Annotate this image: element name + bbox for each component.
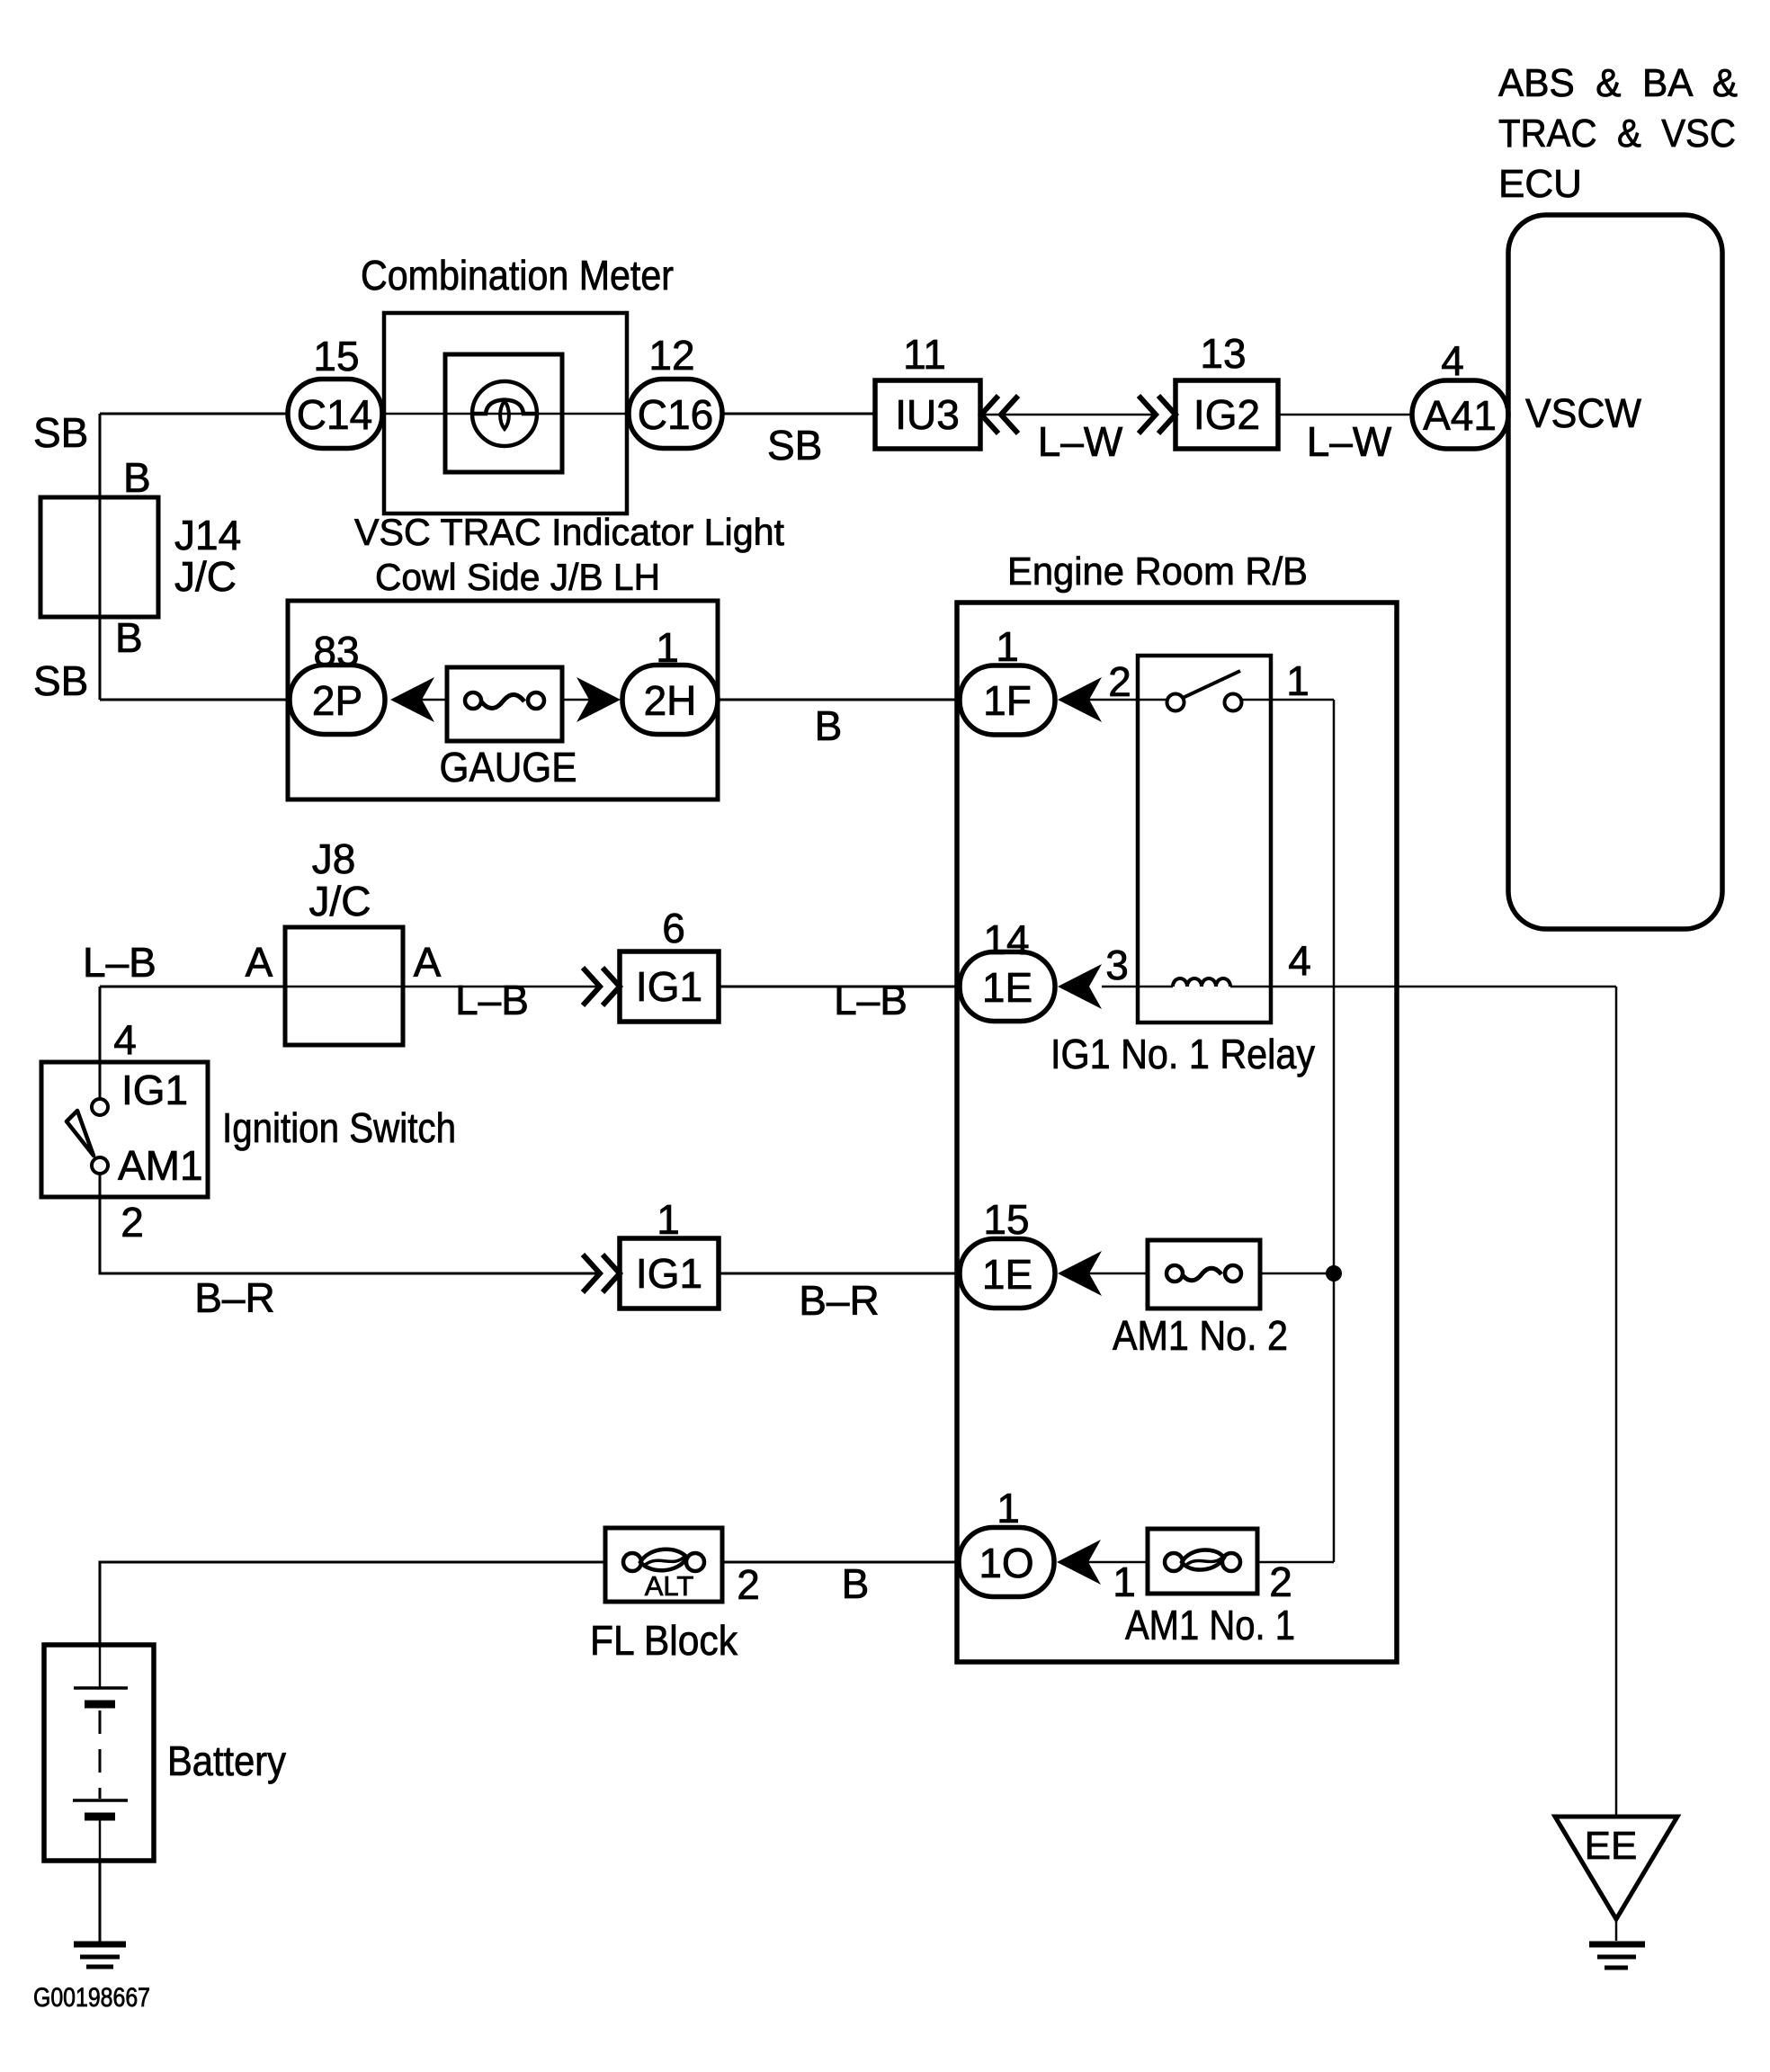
- pin 1 label (AM1 No.1 left): [1113, 1558, 1136, 1605]
- connector 1F: [960, 665, 1055, 735]
- node label: FL Block: [590, 1617, 738, 1664]
- wire row3: left bus to J8: [100, 986, 285, 988]
- svg-text:VSC TRAC Indicator Light: VSC TRAC Indicator Light: [354, 511, 784, 553]
- label J14 J/C: [174, 512, 241, 600]
- label GAUGE: [440, 744, 577, 790]
- fuse GAUGE symbol: [465, 692, 544, 709]
- wire fuse to arrow: [562, 699, 589, 701]
- figure id G00198667: [33, 1983, 150, 2013]
- svg-text:B–R: B–R: [194, 1274, 274, 1321]
- engine room R/B box: [957, 603, 1397, 1662]
- svg-text:GAUGE: GAUGE: [440, 744, 577, 790]
- pin 15 label: [313, 333, 359, 380]
- pin 6 label: [662, 905, 685, 951]
- ground (EE): [1589, 1944, 1645, 1968]
- pin 1 label (IG1 row4): [657, 1196, 680, 1243]
- pin A label (left of J8): [246, 939, 273, 986]
- node label: Battery: [167, 1737, 286, 1784]
- svg-text:ALT: ALT: [645, 1570, 694, 1602]
- svg-text:2: 2: [121, 1199, 144, 1246]
- wire arrow to relay switch: [1089, 699, 1167, 701]
- wire C14 to meter inner area to C16: [382, 413, 630, 415]
- svg-text:IG2: IG2: [1193, 391, 1260, 438]
- node label: ABS & BA & TRAC & VSC ECU: [1498, 61, 1738, 206]
- svg-text:15: 15: [313, 333, 359, 380]
- svg-text:B–R: B–R: [799, 1277, 879, 1324]
- wire AM1 down and row4 to chevrons: [100, 1174, 600, 1273]
- connector C14: [288, 380, 382, 449]
- svg-text:IG1: IG1: [636, 963, 702, 1010]
- wire EE apex to ground: [1615, 1919, 1618, 1941]
- wire left bus vertical (row1 to row2): [99, 414, 102, 700]
- pin 13 label: [1200, 330, 1246, 377]
- IG1 No.1 relay box: [1138, 656, 1271, 1023]
- ground EE triangle: [1555, 1817, 1677, 1919]
- relay pin 4 label: [1288, 937, 1311, 984]
- svg-text:4: 4: [1441, 337, 1464, 384]
- node label: IG1 No. 1 Relay: [1050, 1031, 1315, 1077]
- svg-text:L–B: L–B: [834, 977, 907, 1023]
- arrow (coil to 1E): [1058, 964, 1102, 1009]
- svg-text:EE: EE: [1585, 1824, 1638, 1868]
- wire label L-B (far left): [83, 939, 156, 986]
- wire left bus vertical row3 to IG1 terminal: [99, 987, 102, 1099]
- AM1 No.1 fusible link symbol: [1165, 1550, 1240, 1571]
- svg-text:4: 4: [1288, 937, 1311, 984]
- wire battery to FL block: [100, 1562, 605, 1645]
- connector A41: [1412, 380, 1508, 449]
- pin 83 label: [313, 628, 359, 674]
- wire label B (below J14): [115, 614, 143, 661]
- svg-text:2: 2: [1108, 658, 1131, 705]
- svg-text:ECU: ECU: [1498, 162, 1582, 206]
- pin 2 label (AM1 No.1 right): [1269, 1558, 1292, 1605]
- svg-text:J/C: J/C: [174, 553, 237, 600]
- junction connector J14 box: [40, 497, 158, 617]
- battery box: [44, 1645, 154, 1861]
- label AM1 (ignition): [118, 1142, 203, 1189]
- wire label SB (right of C16): [767, 422, 822, 469]
- connector 1O: [959, 1528, 1054, 1597]
- wire label B (above J14): [123, 454, 151, 501]
- connector 1E pin14: [960, 952, 1055, 1022]
- label VSCW: [1525, 390, 1642, 436]
- node label: Engine Room R/B: [1007, 549, 1308, 594]
- wire arrow to AM1 No.2 fuse: [1089, 1273, 1148, 1275]
- svg-text:1F: 1F: [983, 677, 1032, 724]
- relay switch contacts: [1167, 671, 1242, 711]
- ignition IG1 terminal: [92, 1099, 108, 1115]
- wire IG2 to A41 (L-W): [1278, 414, 1413, 416]
- connector IU3: [875, 380, 980, 449]
- wire label SB (row2 left): [33, 657, 88, 704]
- wire row3 from relay to EE drop: [1334, 986, 1616, 988]
- ignition AM1 terminal: [92, 1157, 108, 1174]
- ground (battery): [74, 1944, 126, 1967]
- pin 14 label: [983, 916, 1029, 963]
- battery internal bottom wire: [99, 1817, 102, 1861]
- male chevrons before IG1: [583, 968, 620, 1005]
- svg-text:J/C: J/C: [309, 878, 371, 924]
- wire row3 through J8 to chevrons: [285, 986, 600, 988]
- svg-text:4: 4: [113, 1016, 137, 1063]
- svg-text:IG1: IG1: [636, 1250, 702, 1297]
- battery plate long bottom: [73, 1799, 128, 1802]
- svg-text:1: 1: [657, 1196, 680, 1243]
- wire IG1 to 1E (B-R): [719, 1273, 961, 1275]
- wire C16 to IU3: [721, 413, 875, 415]
- wire SB from left bus to C14: [100, 413, 288, 415]
- svg-text:J8: J8: [312, 835, 356, 882]
- wire battery to ground: [99, 1861, 102, 1943]
- svg-text:2: 2: [737, 1561, 760, 1608]
- svg-text:A: A: [414, 939, 442, 986]
- battery dashed center: [99, 1710, 102, 1799]
- male chevrons before IG2: [1139, 396, 1176, 433]
- pin 12 label: [648, 332, 694, 379]
- svg-text:C14: C14: [297, 391, 372, 438]
- connector 2P: [290, 665, 385, 735]
- svg-text:1: 1: [1113, 1558, 1136, 1605]
- wire vertical from relay pin1 down to AM1 fuses: [1333, 700, 1336, 1562]
- svg-text:2: 2: [1269, 1558, 1292, 1605]
- svg-text:L–W: L–W: [1307, 418, 1392, 465]
- wire FL to 1O (B): [722, 1561, 961, 1564]
- svg-text:L–B: L–B: [455, 977, 529, 1023]
- svg-text:SB: SB: [33, 409, 88, 456]
- svg-text:B: B: [115, 614, 143, 661]
- connector 1E pin15: [960, 1239, 1055, 1308]
- male chevrons after IU3: [981, 396, 1018, 433]
- pin A label (right of J8): [414, 939, 442, 986]
- wire 2H to 1F (B): [718, 699, 961, 701]
- wire label L-W (IU3 to IG2): [1038, 418, 1123, 465]
- svg-text:Battery: Battery: [167, 1737, 286, 1784]
- pin 1 label (1F): [996, 623, 1019, 670]
- label: VSC TRAC Indicator Light: [354, 511, 784, 553]
- svg-text:IG1 No. 1 Relay: IG1 No. 1 Relay: [1050, 1031, 1315, 1077]
- fusible link AM1 No.1 box: [1148, 1529, 1257, 1594]
- svg-text:Engine Room R/B: Engine Room R/B: [1007, 549, 1308, 594]
- wire label B (row5): [842, 1560, 870, 1607]
- wire IG1 to 1E (L-B): [719, 986, 961, 988]
- pin 11 label: [903, 331, 946, 378]
- arrow (AM1 No.2 fuse to 1E): [1058, 1251, 1102, 1296]
- svg-text:1E: 1E: [982, 1251, 1032, 1298]
- svg-text:SB: SB: [767, 422, 822, 469]
- pin 4 label: [1441, 337, 1464, 384]
- svg-text:1: 1: [997, 1485, 1020, 1532]
- combination meter box: [384, 313, 627, 514]
- wire label L-B (mid): [455, 977, 529, 1023]
- svg-text:ABS & BA &: ABS & BA &: [1498, 61, 1738, 105]
- svg-text:A41: A41: [1423, 392, 1497, 439]
- pin 1 label (1O): [997, 1485, 1020, 1532]
- junction dot: [1326, 1265, 1342, 1282]
- svg-text:15: 15: [983, 1196, 1029, 1243]
- relay pin 2 label: [1108, 658, 1131, 705]
- label ALT: [645, 1570, 694, 1602]
- ignition switch box: [41, 1062, 208, 1197]
- pin 15 label: [983, 1196, 1029, 1243]
- svg-text:IU3: IU3: [895, 391, 960, 438]
- svg-text:IG1: IG1: [121, 1067, 188, 1113]
- battery plate short thick bottom: [85, 1813, 115, 1821]
- svg-text:Cowl Side J/B LH: Cowl Side J/B LH: [375, 556, 660, 598]
- relay pin 3 label: [1105, 942, 1129, 988]
- svg-text:SB: SB: [33, 657, 88, 704]
- wire label B-R (left): [194, 1274, 274, 1321]
- pin 2 label (FL): [737, 1561, 760, 1608]
- svg-text:14: 14: [983, 916, 1029, 963]
- svg-text:3: 3: [1105, 942, 1129, 988]
- connector C16: [629, 380, 722, 449]
- svg-text:J14: J14: [174, 512, 241, 558]
- node label: AM1 No. 2: [1113, 1312, 1288, 1359]
- wire label SB (left of C14 wire): [33, 409, 88, 456]
- svg-text:Combination Meter: Combination Meter: [361, 252, 674, 299]
- ABS & BA & TRAC & VSC ECU box: [1508, 215, 1722, 929]
- svg-text:B: B: [123, 454, 151, 501]
- label IG1 (ignition): [121, 1067, 188, 1113]
- connector IG2: [1176, 380, 1278, 449]
- wire row2 left bus to 2P: [100, 699, 290, 701]
- male chevrons before IG1 row4: [583, 1255, 620, 1292]
- wire vertical drop to EE ground: [1615, 987, 1618, 1817]
- node label: AM1 No. 1: [1125, 1602, 1295, 1648]
- svg-text:G00198667: G00198667: [33, 1983, 150, 2013]
- svg-text:12: 12: [648, 332, 694, 379]
- svg-text:VSCW: VSCW: [1525, 390, 1642, 436]
- svg-text:A: A: [246, 939, 273, 986]
- cowl side J/B box: [288, 601, 718, 799]
- ignition switch lever: [67, 1111, 94, 1156]
- svg-text:13: 13: [1200, 330, 1246, 377]
- svg-text:1: 1: [1286, 657, 1310, 704]
- wire arrow to fuse: [416, 699, 447, 701]
- svg-text:AM1 No. 1: AM1 No. 1: [1125, 1602, 1295, 1648]
- svg-text:83: 83: [313, 628, 359, 674]
- svg-text:L–B: L–B: [83, 939, 156, 986]
- wire label L-B (right): [834, 977, 907, 1023]
- battery plate long top: [74, 1686, 128, 1690]
- svg-text:B: B: [842, 1560, 870, 1607]
- pin 2 label (ignition): [121, 1199, 144, 1246]
- svg-text:2H: 2H: [644, 677, 697, 724]
- arrow (relay to 1F): [1058, 677, 1102, 722]
- wire IU3 to IG2 (L-W): [983, 414, 1156, 416]
- wire relay pin1: [1241, 699, 1334, 701]
- battery internal top wire: [99, 1645, 102, 1688]
- svg-text:B: B: [815, 702, 843, 749]
- svg-text:L–W: L–W: [1038, 418, 1123, 465]
- relay coil: [1102, 978, 1334, 987]
- arrow (fuse to 2H): [577, 677, 621, 722]
- svg-text:FL Block: FL Block: [590, 1617, 738, 1664]
- svg-text:6: 6: [662, 905, 685, 951]
- svg-text:AM1: AM1: [118, 1142, 203, 1189]
- node label: Combination Meter: [361, 252, 674, 299]
- battery plate short thick top: [85, 1701, 115, 1709]
- relay pin 1 label: [1286, 657, 1310, 704]
- wire label B: [815, 702, 843, 749]
- wire arrow to AM1 No.1: [1088, 1561, 1148, 1564]
- svg-text:1E: 1E: [982, 964, 1032, 1011]
- fuse GAUGE box: [447, 667, 562, 741]
- pin 4 label (ignition): [113, 1016, 137, 1063]
- junction connector J8 box: [285, 927, 403, 1045]
- connector 2H: [622, 665, 718, 735]
- connector IG1 (row4): [620, 1238, 719, 1308]
- svg-text:TRAC & VSC: TRAC & VSC: [1498, 112, 1736, 156]
- arrow (AM1 No.1 to 1O): [1057, 1540, 1101, 1585]
- svg-text:11: 11: [903, 331, 946, 378]
- svg-text:1: 1: [996, 623, 1019, 670]
- connector IG1 (row3): [620, 951, 719, 1022]
- node label: J8 J/C: [309, 835, 371, 924]
- node label: Ignition Switch: [222, 1104, 456, 1151]
- svg-text:2P: 2P: [312, 677, 362, 724]
- pin 1 label: [656, 624, 679, 671]
- FL block fusible link symbol: [623, 1550, 704, 1571]
- fuse AM1 No.2 symbol: [1167, 1265, 1241, 1282]
- svg-text:Ignition Switch: Ignition Switch: [222, 1104, 456, 1151]
- svg-text:1: 1: [656, 624, 679, 671]
- fuse AM1 No.2 box: [1148, 1240, 1260, 1308]
- label EE: [1585, 1824, 1638, 1868]
- VSC TRAC indicator light inner box: [445, 354, 562, 472]
- arrow (GAUGE to 2P): [390, 677, 434, 722]
- wire fuse to vertical: [1257, 1561, 1334, 1564]
- wire label B-R (right): [799, 1277, 879, 1324]
- wire fuse to junction: [1260, 1273, 1334, 1275]
- fusible link FL block box: [605, 1528, 722, 1602]
- svg-text:AM1 No. 2: AM1 No. 2: [1113, 1312, 1288, 1359]
- indicator lamp bulb: [472, 381, 537, 446]
- node label: Cowl Side J/B LH: [375, 556, 660, 598]
- svg-text:C16: C16: [638, 391, 713, 438]
- wire label L-W (IG2 to A41): [1307, 418, 1392, 465]
- svg-text:1O: 1O: [979, 1540, 1033, 1586]
